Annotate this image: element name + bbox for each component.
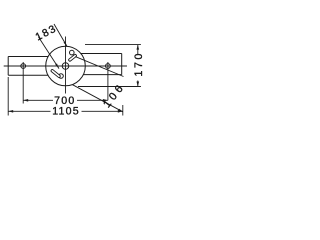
svg-text:170: 170	[133, 51, 145, 76]
svg-text:1105: 1105	[52, 105, 80, 117]
